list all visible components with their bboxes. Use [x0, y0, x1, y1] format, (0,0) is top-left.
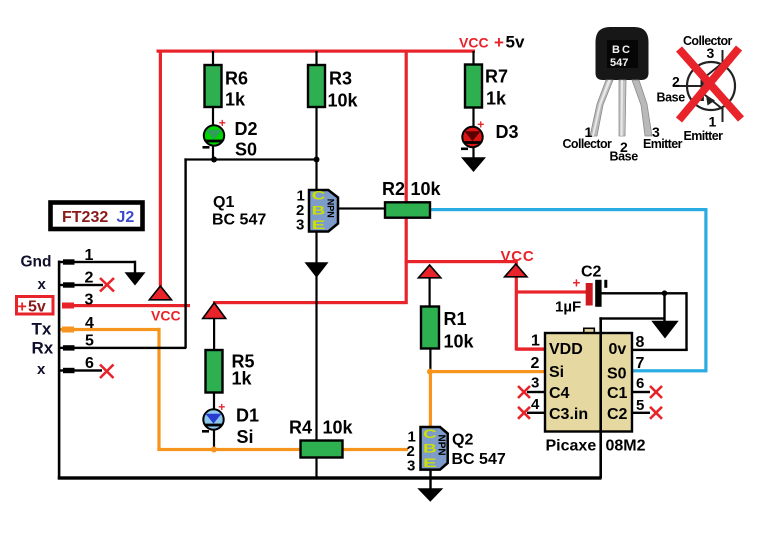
- svg-text:+: +: [218, 400, 225, 414]
- wire black pin1 corner down to gnd arrow: [134, 261, 136, 273]
- capacitor C2: [555, 264, 607, 316]
- svg-text:Tx: Tx: [32, 320, 52, 339]
- wire red vertical rail mid x406: [405, 50, 408, 305]
- svg-text:C2: C2: [581, 264, 602, 281]
- wire black Q1 emitter down through R4 to ground rail: [315, 230, 317, 478]
- wire black stub rail to R3: [315, 51, 317, 66]
- wire black J2 pin2 stub: [59, 284, 103, 286]
- wire blue into SO pin7: [632, 369, 708, 372]
- svg-text:6: 6: [636, 375, 644, 392]
- svg-text:C: C: [423, 429, 437, 441]
- svg-text:VCC: VCC: [459, 35, 489, 51]
- svg-text:6: 6: [85, 355, 94, 372]
- svg-text:R2: R2: [382, 179, 405, 199]
- svg-text:547: 547: [610, 57, 628, 69]
- svg-text:C1: C1: [607, 385, 628, 402]
- svg-text:R3: R3: [329, 69, 352, 89]
- svg-text:BC 547: BC 547: [212, 212, 266, 229]
- svg-text:+: +: [477, 118, 484, 132]
- transistor Q1: [309, 190, 338, 232]
- svg-text:1k: 1k: [232, 369, 253, 389]
- svg-text:Q1: Q1: [213, 194, 234, 211]
- svg-text:R4: R4: [289, 418, 312, 438]
- svg-text:5v: 5v: [506, 33, 525, 52]
- wire black horizontal H1 node: [184, 158, 317, 160]
- svg-text:B: B: [312, 206, 326, 218]
- VCC arrow A3: [418, 265, 440, 278]
- wire orange bottom horizontal to R4/Q2: [157, 448, 408, 451]
- svg-text:3: 3: [296, 217, 304, 234]
- VCC arrow A2: [203, 303, 226, 319]
- crossed-out transistor symbol: [657, 34, 742, 143]
- pad pin3 red: [62, 303, 74, 309]
- svg-text:1: 1: [709, 114, 717, 130]
- X mark J2 pin2: [100, 278, 114, 292]
- svg-text:NPN: NPN: [436, 435, 447, 456]
- TO-92 package photo: [563, 27, 683, 164]
- wire black VCC arrow A2 to R5: [213, 318, 215, 351]
- wire black Rx vertical x185.5: [184, 158, 186, 348]
- junction dot orange R1 node: [427, 369, 433, 375]
- svg-text:R1: R1: [444, 309, 467, 329]
- wire red vertical rail left (to VCC arrow A1): [159, 50, 162, 287]
- wire black horizontal gnd spur y318.5: [599, 317, 665, 319]
- wire black stub rail to R6: [212, 51, 214, 66]
- wire black R6 to D2: [212, 105, 214, 127]
- svg-text:S0: S0: [235, 140, 257, 160]
- svg-text:C3.in: C3.in: [549, 406, 588, 423]
- wire orange vertical into Q2 collector: [429, 370, 432, 427]
- resistor R4: [301, 441, 343, 458]
- svg-text:10k: 10k: [444, 332, 475, 352]
- svg-text:10k: 10k: [328, 91, 359, 111]
- svg-text:BC: BC: [612, 44, 632, 56]
- svg-text:+: +: [219, 116, 226, 130]
- wire black J2 pin1 stub: [59, 261, 136, 263]
- svg-text:Base: Base: [610, 150, 639, 164]
- svg-text:Rx: Rx: [32, 339, 54, 358]
- wire black 0v pin8 stub: [632, 349, 688, 351]
- wire black chip divider / ground line down through chip: [599, 317, 602, 478]
- svg-text:2: 2: [531, 355, 540, 372]
- svg-text:1k: 1k: [486, 89, 507, 109]
- X mark chip pin4: [518, 407, 530, 419]
- svg-text:3: 3: [85, 292, 94, 309]
- wire red VDD stub pin1: [516, 347, 546, 350]
- svg-text:0v: 0v: [609, 341, 627, 358]
- transistor Q2: [421, 427, 448, 470]
- wire black D2 to node H1: [212, 143, 214, 161]
- svg-text:D3: D3: [496, 122, 519, 142]
- svg-text:3: 3: [407, 458, 415, 475]
- X mark J2 pin6: [100, 365, 114, 379]
- svg-text:3: 3: [531, 375, 539, 392]
- resistor R6: [205, 65, 222, 107]
- svg-text:8: 8: [636, 334, 645, 351]
- wire black stub rail to R7: [472, 51, 474, 65]
- svg-text:Gnd: Gnd: [21, 254, 52, 271]
- svg-text:10k: 10k: [323, 418, 354, 438]
- wire black J2 pin6 stub: [59, 369, 102, 371]
- X mark chip pin5: [650, 407, 662, 419]
- resistor R1: [421, 307, 439, 349]
- ground G4 below Q2: [417, 488, 443, 501]
- svg-text:Si: Si: [237, 427, 254, 447]
- svg-text:5: 5: [636, 397, 644, 414]
- LED D1: [202, 400, 225, 433]
- svg-text:Collector: Collector: [563, 137, 613, 151]
- svg-text:Picaxe: Picaxe: [546, 438, 597, 455]
- Picaxe 08M2 chip U1: [545, 328, 632, 432]
- svg-text:1µF: 1µF: [555, 299, 581, 316]
- svg-text:Emitter: Emitter: [643, 137, 683, 151]
- svg-text:B: B: [423, 444, 437, 456]
- svg-text:E: E: [312, 220, 326, 232]
- svg-text:+: +: [18, 299, 27, 316]
- svg-text:5: 5: [85, 333, 94, 350]
- X mark chip pin3: [518, 386, 530, 398]
- svg-text:+: +: [573, 276, 581, 291]
- LED D3: [461, 118, 484, 151]
- pad pin4 orange: [62, 327, 74, 333]
- wire black J2 pin5 stub Rx: [59, 347, 186, 349]
- svg-text:D1: D1: [236, 406, 259, 426]
- VCC arrow A1: [149, 286, 171, 300]
- wire red VCC branch L3 to right: [405, 260, 518, 263]
- svg-text:D2: D2: [235, 119, 258, 139]
- wire orange vertical x159: [157, 328, 160, 451]
- wire red top VCC rail: [157, 50, 476, 53]
- wire black VCC arrow A3 to R1: [429, 278, 431, 308]
- junction dot orange D1 node: [211, 447, 217, 453]
- junction dot node C2 wire: [662, 290, 668, 296]
- VCC arrow A4: [505, 264, 527, 277]
- wire red C2 branch: [516, 290, 586, 293]
- wire red horizontal L2 from VCC arrow A2 to rail: [213, 301, 408, 304]
- junction dot node R3-H1: [314, 157, 320, 163]
- wire red vertical V3 feeding VDD: [515, 262, 518, 351]
- resistor R2: [385, 202, 430, 217]
- svg-text:J2: J2: [117, 209, 135, 226]
- svg-text:1: 1: [531, 333, 540, 350]
- svg-text:E: E: [423, 458, 437, 470]
- pad pin6: [63, 368, 75, 373]
- svg-text:C: C: [312, 191, 326, 203]
- resistor R5: [206, 350, 223, 393]
- wire black vertical x686.5 down to 0v: [685, 292, 687, 350]
- pad pin1: [63, 259, 75, 264]
- pad pin5: [63, 345, 75, 350]
- wire black Q1 base to R2: [337, 207, 386, 209]
- wire black J2 connector vertical: [58, 261, 61, 480]
- svg-text:08M2: 08M2: [606, 438, 646, 455]
- LED D2: [203, 116, 226, 149]
- wire black R3 down to Q1 collector: [315, 105, 317, 191]
- svg-text:2: 2: [85, 270, 94, 287]
- svg-text:4: 4: [531, 396, 540, 413]
- FT232 J2 label box: [51, 203, 143, 230]
- svg-text:C4: C4: [549, 385, 570, 402]
- +5v label box: [17, 297, 54, 316]
- svg-text:2: 2: [672, 74, 680, 90]
- svg-text:VCC: VCC: [501, 248, 535, 265]
- wire black D3 to ground: [472, 145, 474, 159]
- wire orange J2 pin4 Tx stub: [59, 328, 161, 331]
- wire red +5v line from J2 pin3: [62, 304, 190, 307]
- svg-text:VCC: VCC: [151, 308, 181, 324]
- svg-text:Q2: Q2: [452, 432, 473, 449]
- svg-text:+: +: [494, 33, 504, 52]
- ground G5 at C2 / 0v: [651, 321, 678, 339]
- svg-text:7: 7: [636, 355, 645, 372]
- svg-text:10k: 10k: [411, 179, 442, 199]
- svg-text:3: 3: [707, 45, 715, 61]
- svg-text:x: x: [37, 361, 46, 378]
- svg-text:4: 4: [85, 315, 94, 332]
- wire blue vertical right x706: [704, 208, 707, 372]
- junction dot node D2-H1: [211, 157, 217, 163]
- svg-text:FT232: FT232: [62, 209, 108, 226]
- resistor R3: [308, 65, 325, 107]
- wire black vertical from C2 wire to gnd arrow line: [663, 292, 665, 321]
- wire blue from R2 to right edge: [430, 208, 708, 211]
- ground G1 at J2 pin1: [125, 272, 146, 285]
- svg-text:5v: 5v: [28, 299, 46, 316]
- chip pin stubs black: [527, 391, 545, 393]
- svg-text:VDD: VDD: [549, 341, 583, 358]
- wire black R7 to D3: [472, 106, 474, 128]
- wire black Q2 emitter to ground arrow: [429, 469, 431, 489]
- wire black D1 to orange line: [213, 427, 215, 449]
- resistor R7: [465, 65, 482, 108]
- svg-text:Base: Base: [657, 91, 686, 105]
- wire orange R1 node to chip Si pin: [429, 370, 545, 373]
- wire black C2 right plate to right: [601, 292, 687, 294]
- svg-text:NPN: NPN: [325, 199, 335, 218]
- svg-text:x: x: [38, 276, 47, 293]
- svg-text:Emitter: Emitter: [684, 129, 724, 143]
- X mark chip pin6: [650, 386, 662, 398]
- wire black bottom ground rail: [58, 476, 602, 479]
- svg-text:1k: 1k: [225, 90, 246, 110]
- svg-text:R6: R6: [225, 69, 248, 89]
- svg-text:1: 1: [85, 247, 94, 264]
- wire black R1 to orange junction: [429, 348, 431, 371]
- ground G3 below D3: [461, 157, 486, 172]
- svg-text:Si: Si: [549, 364, 564, 381]
- wire black R5 to D1: [213, 392, 215, 411]
- svg-text:R7: R7: [485, 67, 508, 87]
- svg-text:C2: C2: [607, 406, 628, 423]
- pad pin2: [63, 282, 75, 287]
- svg-text:BC 547: BC 547: [452, 451, 506, 468]
- ground G2 below Q1: [305, 262, 329, 277]
- svg-text:S0: S0: [607, 366, 627, 383]
